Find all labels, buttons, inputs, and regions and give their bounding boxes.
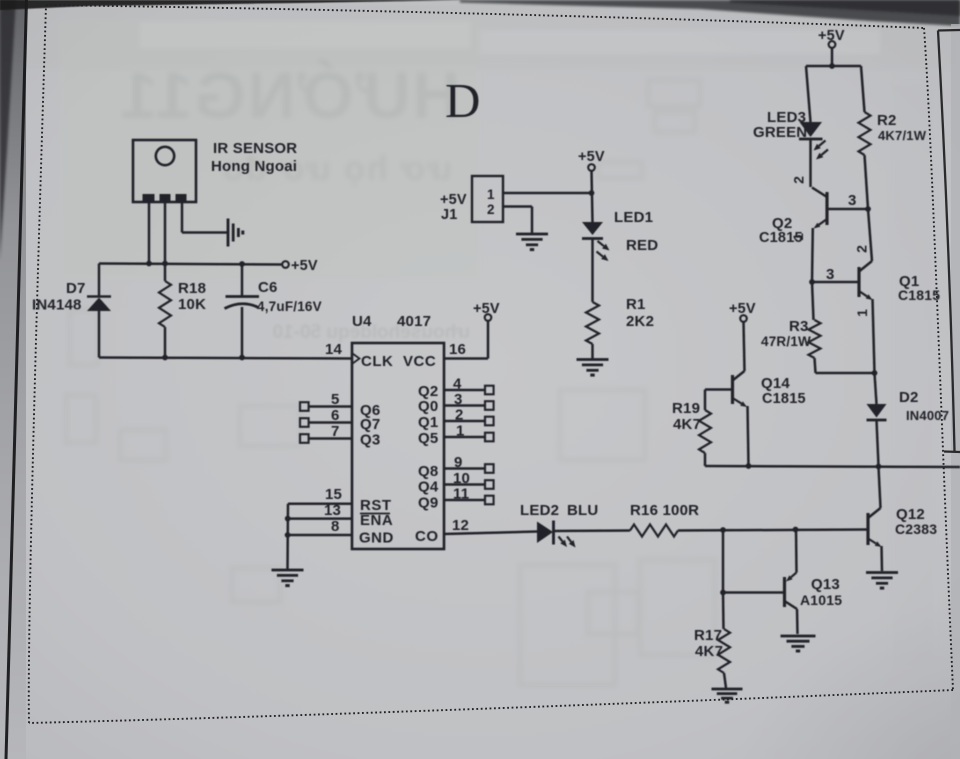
svg-text:16: 16: [449, 341, 466, 358]
svg-text:+5V: +5V: [818, 28, 845, 44]
junction: [720, 527, 726, 533]
svg-text:2: 2: [487, 202, 495, 217]
svg-text:2: 2: [791, 176, 807, 184]
junction: [872, 370, 878, 376]
svg-text:10: 10: [453, 470, 470, 487]
svg-text:C1815: C1815: [898, 287, 940, 303]
svg-text:R17: R17: [694, 627, 722, 644]
svg-text:+5V: +5V: [291, 258, 318, 274]
wire: +5V to LED1: [592, 171, 593, 222]
svg-text:15: 15: [325, 486, 342, 503]
svg-text:1: 1: [456, 423, 465, 440]
svg-text:C1815: C1815: [762, 391, 806, 407]
LED LED2 BLU: [537, 522, 553, 544]
transistor Q12 C2383: [866, 513, 869, 545]
svg-text:C6: C6: [258, 279, 278, 296]
wire: J1 pin1 to +5V rail: [503, 192, 592, 195]
wire: emitter/diode bus: [705, 466, 960, 467]
svg-text:A1015: A1015: [800, 592, 842, 608]
wire: sensor output rail: [99, 264, 282, 265]
svg-text:Q13: Q13: [811, 576, 840, 593]
svg-text:2: 2: [854, 245, 870, 253]
svg-text:3: 3: [848, 192, 857, 209]
svg-text:HƯỚNG11: HƯỚNG11: [119, 58, 461, 132]
junction: [720, 590, 726, 596]
resistor R19 4K7: [704, 390, 707, 411]
junction: [162, 261, 168, 267]
LED LED1 RED: [582, 222, 603, 235]
LED LED3 GREEN: [800, 122, 823, 137]
svg-text:BLU: BLU: [567, 502, 598, 519]
adjacent schematic frame: [938, 30, 960, 451]
resistor R3 47R/1W: [812, 282, 814, 320]
svg-text:Q7: Q7: [360, 416, 380, 433]
svg-text:C2383: C2383: [895, 521, 937, 537]
svg-text:D2: D2: [899, 389, 919, 406]
svg-text:12: 12: [452, 517, 469, 534]
svg-text:R19: R19: [672, 400, 700, 417]
wire: reset/enable/gnd common: [286, 504, 289, 570]
ground (Q13): [781, 635, 816, 638]
+5V terminal (top right): [829, 41, 836, 48]
svg-text:6: 6: [331, 407, 340, 424]
svg-text:Q4: Q4: [418, 479, 439, 496]
svg-text:5: 5: [331, 391, 340, 408]
pin 3 stub: [444, 404, 485, 407]
svg-text:Q14: Q14: [761, 375, 790, 392]
ground (R1): [577, 358, 609, 361]
svg-text:LED1: LED1: [614, 209, 653, 226]
IC U4 4017: [352, 343, 444, 549]
svg-text:C1815: C1815: [759, 230, 803, 246]
transistor Q14 C1815: [731, 375, 734, 404]
wire: R16 to Q12 base: [678, 530, 867, 531]
svg-text:R16 100R: R16 100R: [630, 502, 699, 519]
svg-text:R1: R1: [626, 296, 646, 313]
svg-text:+5V: +5V: [578, 149, 605, 165]
+5V terminal (LED1): [588, 164, 595, 171]
pin 10 stub: [444, 483, 485, 486]
resistor R18 10K: [164, 264, 167, 282]
junction: [239, 355, 245, 361]
junction: [746, 463, 752, 469]
junction: [809, 279, 815, 285]
wire: down to R17/Q13 base: [722, 530, 725, 593]
svg-text:10K: 10K: [178, 296, 206, 313]
resistor R17 4K7: [718, 629, 730, 673]
pin 2 stub: [444, 420, 485, 423]
diode D7 IN4148: [98, 264, 101, 297]
capacitor C6 4,7uF/16V: [241, 264, 244, 296]
pin 6 Q7 stub: [300, 418, 309, 427]
svg-text:3: 3: [826, 266, 835, 283]
transistor Q2 C1815: [825, 192, 828, 225]
pin 15 RST: [288, 502, 352, 505]
resistor R1 2K2: [586, 302, 599, 344]
pin 1 stub: [444, 436, 485, 439]
svg-text:Q9: Q9: [418, 495, 438, 512]
junction: [865, 206, 871, 212]
junction: [285, 516, 291, 522]
svg-text:+5V: +5V: [473, 301, 500, 317]
IR sensor module: [133, 140, 196, 202]
svg-text:RED: RED: [626, 237, 658, 254]
svg-text:2K2: 2K2: [626, 313, 654, 330]
svg-text:Q1: Q1: [418, 414, 438, 431]
svg-text:Hong Ngoai: Hong Ngoai: [211, 158, 297, 175]
wire: clock bus to pin 14: [99, 358, 352, 359]
junction: [793, 527, 799, 533]
wire: +5V split to LED3 and R2: [831, 48, 834, 66]
ground (J1): [516, 233, 548, 236]
svg-text:D: D: [445, 73, 480, 128]
svg-text:4K7/1W: 4K7/1W: [878, 128, 927, 143]
resistor R2 4K7/1W: [859, 112, 871, 155]
svg-text:4K7: 4K7: [695, 643, 723, 660]
pin 9 stub: [444, 467, 485, 470]
svg-text:VCC: VCC: [403, 353, 436, 370]
svg-text:IN4007: IN4007: [906, 408, 949, 423]
svg-text:IN4148: IN4148: [32, 297, 82, 314]
svg-text:11: 11: [453, 486, 469, 503]
svg-text:3: 3: [454, 391, 463, 408]
pin 11 stub: [444, 499, 485, 502]
junction: [285, 532, 291, 538]
wire: pin 16 to +5V: [444, 357, 488, 360]
svg-text:Q5: Q5: [418, 430, 438, 447]
clock input triangle: [353, 354, 360, 364]
svg-text:R2: R2: [877, 112, 897, 129]
svg-text:Q8: Q8: [418, 463, 438, 480]
svg-text:GREEN: GREEN: [753, 124, 807, 141]
pin 13 ENA: [288, 517, 353, 520]
junction: [146, 261, 152, 267]
wire: Q1 emitter down: [873, 299, 875, 373]
ground (Q12): [866, 571, 898, 574]
+5V terminal (VCC): [485, 314, 492, 321]
pin 5 Q6 stub: [300, 402, 309, 411]
svg-text:Q0: Q0: [418, 398, 438, 415]
svg-text:4,7uF/16V: 4,7uF/16V: [257, 299, 322, 314]
svg-text:4K7: 4K7: [673, 416, 701, 433]
+5V terminal (Q14): [740, 315, 747, 322]
connector J1: [472, 176, 503, 222]
svg-text:ENA: ENA: [360, 512, 393, 529]
ground (IR sensor): [227, 219, 230, 247]
wire: IR sensor pin1 down: [148, 201, 151, 264]
svg-text:D7: D7: [66, 280, 86, 297]
wire: LED3 to Q2 collector: [809, 139, 812, 187]
wire: IR sensor pin3 to ground: [181, 201, 184, 233]
svg-text:14: 14: [325, 341, 343, 358]
svg-text:Q3: Q3: [360, 432, 380, 449]
wire: IR sensor pin2 down: [164, 201, 167, 264]
svg-text:9: 9: [454, 454, 463, 471]
junction: [162, 355, 168, 361]
wire: pin 12 CO output: [444, 532, 537, 535]
svg-text:13: 13: [324, 502, 341, 519]
pin 7 Q3 stub: [300, 434, 309, 443]
ground (U4): [272, 569, 304, 572]
junction: [829, 63, 835, 69]
svg-text:8: 8: [331, 518, 340, 535]
svg-text:2: 2: [455, 407, 464, 424]
svg-text:1: 1: [487, 187, 495, 202]
transistor Q13 A1015: [783, 577, 786, 607]
svg-text:U4: U4: [352, 313, 372, 330]
svg-text:CO: CO: [415, 528, 439, 545]
svg-text:+5V: +5V: [729, 301, 756, 317]
wire: LED2 to R16: [554, 529, 631, 532]
svg-text:+5V: +5V: [440, 192, 467, 208]
svg-text:47R/1W: 47R/1W: [761, 334, 811, 349]
transistor Q1 C1815: [857, 267, 860, 297]
svg-text:R18: R18: [178, 280, 206, 297]
svg-text:1: 1: [854, 309, 870, 317]
svg-text:4017: 4017: [397, 313, 431, 330]
svg-text:LED2: LED2: [520, 502, 559, 519]
junction: [589, 190, 595, 196]
svg-text:R3: R3: [789, 318, 809, 335]
ground (R17): [712, 688, 743, 691]
svg-text:GND: GND: [359, 530, 394, 547]
svg-text:4: 4: [453, 376, 462, 393]
pin 4 stub: [444, 389, 485, 392]
wire: J1 pin2 to ground: [503, 205, 532, 208]
junction: [876, 464, 882, 470]
diode D2 IN4007: [875, 373, 877, 404]
pin 8 GND: [288, 534, 353, 537]
svg-text:IR SENSOR: IR SENSOR: [213, 140, 297, 157]
junction: [239, 261, 245, 267]
svg-text:7: 7: [331, 423, 340, 440]
resistor R16 100R: [630, 525, 678, 537]
+5V terminal (sensor rail): [282, 261, 289, 268]
wire: Q2 emitter to node: [811, 228, 814, 282]
wire: LED1 to R1: [591, 239, 594, 303]
svg-text:CLK: CLK: [361, 353, 393, 370]
svg-text:J1: J1: [441, 207, 458, 223]
